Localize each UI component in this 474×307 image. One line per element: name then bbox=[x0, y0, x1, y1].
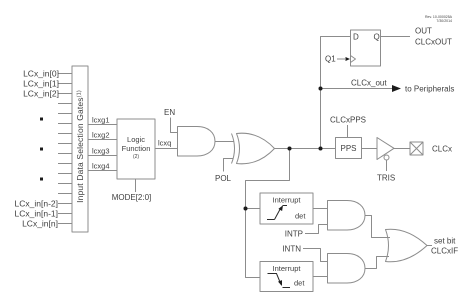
svg-text:CLCxPPS: CLCxPPS bbox=[330, 116, 366, 125]
svg-text:EN: EN bbox=[164, 108, 175, 117]
svg-text:LCx_in[n-2]: LCx_in[n-2] bbox=[15, 199, 58, 209]
svg-text:LCx_in[0]: LCx_in[0] bbox=[23, 69, 59, 79]
svg-text:Q1: Q1 bbox=[325, 55, 336, 64]
svg-text:lcxg1: lcxg1 bbox=[92, 116, 110, 125]
svg-text:to Peripherals: to Peripherals bbox=[405, 85, 454, 94]
svg-text:POL: POL bbox=[215, 174, 232, 183]
svg-text:D: D bbox=[353, 33, 359, 42]
svg-text:Function: Function bbox=[122, 144, 151, 153]
svg-text:INTP: INTP bbox=[285, 230, 303, 239]
svg-text:CLCxOUT: CLCxOUT bbox=[415, 38, 452, 47]
svg-text:LCx_in[2]: LCx_in[2] bbox=[23, 89, 59, 99]
svg-text:lcxq: lcxq bbox=[158, 139, 171, 148]
svg-text:LCx_in[n-1]: LCx_in[n-1] bbox=[15, 209, 58, 219]
svg-text:OUT: OUT bbox=[415, 27, 432, 36]
svg-text:Input Data Selection Gates(1): Input Data Selection Gates(1) bbox=[75, 90, 85, 203]
svg-text:det: det bbox=[294, 279, 305, 288]
svg-text:lcxg4: lcxg4 bbox=[92, 162, 110, 171]
svg-text:MODE[2:0]: MODE[2:0] bbox=[112, 193, 152, 202]
svg-text:lcxg3: lcxg3 bbox=[92, 147, 110, 156]
svg-text:Interrupt: Interrupt bbox=[273, 264, 302, 273]
svg-text:TRIS: TRIS bbox=[377, 174, 395, 183]
svg-text:Interrupt: Interrupt bbox=[273, 196, 302, 205]
svg-text:det: det bbox=[295, 212, 306, 221]
svg-text:set bit: set bit bbox=[434, 237, 456, 246]
svg-text:7/30/2014: 7/30/2014 bbox=[436, 19, 452, 23]
svg-text:LCx_in[1]: LCx_in[1] bbox=[23, 79, 59, 89]
svg-text:INTN: INTN bbox=[282, 245, 301, 254]
svg-text:LCx_in[n]: LCx_in[n] bbox=[22, 219, 58, 229]
svg-text:CLCx: CLCx bbox=[432, 145, 452, 154]
svg-text:Q: Q bbox=[374, 33, 380, 42]
svg-text:PPS: PPS bbox=[340, 144, 356, 153]
svg-text:(2): (2) bbox=[133, 154, 139, 160]
svg-text:Logic: Logic bbox=[127, 135, 145, 144]
svg-text:CLCxIF: CLCxIF bbox=[431, 247, 458, 256]
svg-text:CLCx_out: CLCx_out bbox=[351, 79, 387, 88]
svg-text:lcxg2: lcxg2 bbox=[92, 131, 110, 140]
